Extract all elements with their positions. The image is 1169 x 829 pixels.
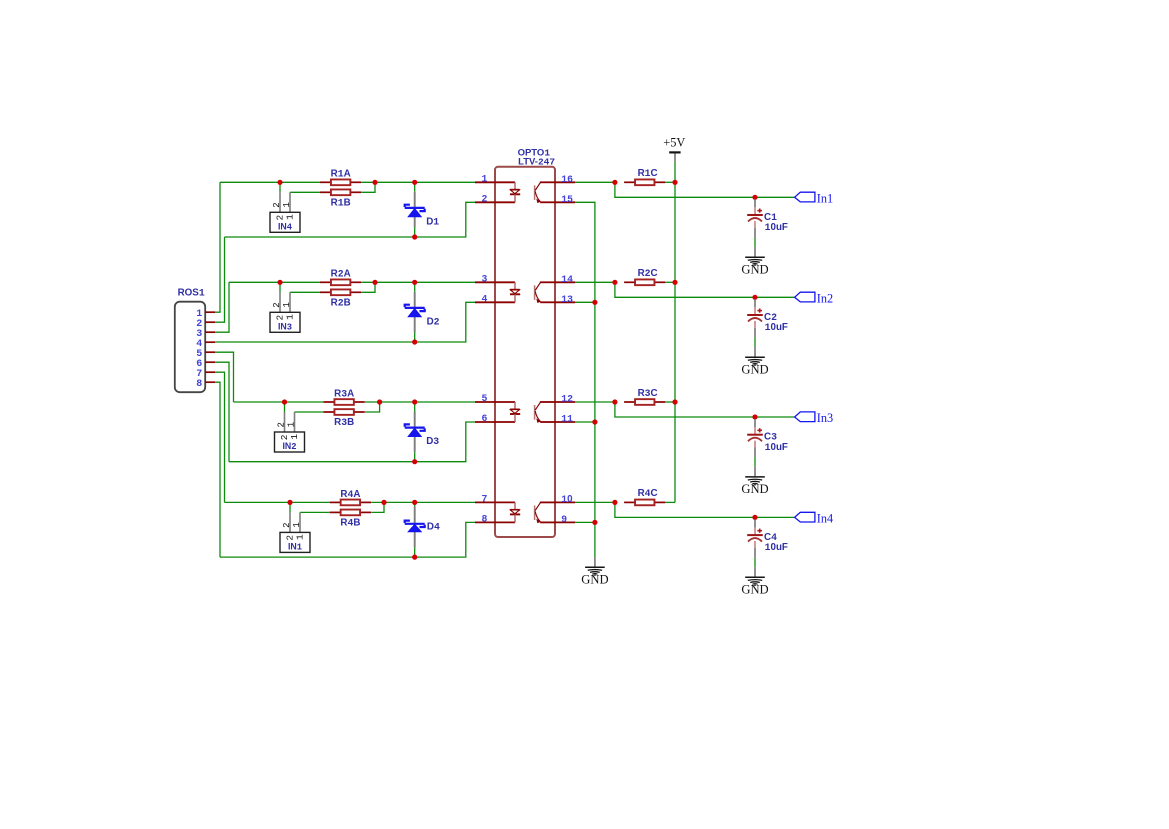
junction R2C left xyxy=(612,280,617,285)
transistor (photo) ch4 xyxy=(535,502,556,523)
label R2C xyxy=(638,268,658,279)
junction ch4 bottom at diode xyxy=(412,555,417,560)
junction In4 at cap C4 xyxy=(752,515,757,520)
pin 1 OPTO1 (anode ch1) xyxy=(475,173,515,184)
junction ch1 bottom at diode xyxy=(412,234,417,239)
junction ch2 top at IN pin2 xyxy=(277,280,282,285)
resistor R1A xyxy=(320,179,361,185)
label D3 xyxy=(426,436,439,447)
resistor R4A xyxy=(330,500,371,506)
junction ch2 top at diode xyxy=(412,280,417,285)
svg-text:1: 1 xyxy=(284,214,295,220)
ground GND (C4) xyxy=(741,567,768,596)
ground GND (C2) xyxy=(741,347,768,376)
svg-text:9: 9 xyxy=(561,514,567,525)
svg-text:16: 16 xyxy=(561,174,573,185)
opto LED ch2 xyxy=(510,282,520,302)
resistor R3B xyxy=(324,409,365,415)
junction In2 at cap C2 xyxy=(752,295,757,300)
svg-text:10uF: 10uF xyxy=(765,442,788,453)
wire output net In3 xyxy=(615,402,795,417)
resistor R4B xyxy=(330,510,371,516)
label R2B xyxy=(331,298,351,309)
wire R3B left to IN2 pin1 xyxy=(295,411,324,413)
connector ROS1 pin 4 xyxy=(196,339,215,350)
resistor R3C xyxy=(624,399,665,405)
capacitor C3 xyxy=(747,419,763,457)
wire pin 9 to emitter rail xyxy=(575,521,595,523)
resistor R1B xyxy=(320,189,361,195)
wire ROS1 pin3 to net ch2 anode xyxy=(215,282,229,332)
label R4A xyxy=(340,489,360,500)
wire ROS1 pin8 to net ch4 cathode xyxy=(215,382,220,557)
svg-text:IN4: IN4 xyxy=(278,222,293,233)
pin 15 OPTO1 (emitter ch1) xyxy=(555,194,575,205)
pin 16 OPTO1 (collector ch1) xyxy=(555,174,575,185)
junction ch4 top at diode xyxy=(412,500,417,505)
wire R3C to +5V rail xyxy=(666,401,675,403)
svg-text:+5V: +5V xyxy=(663,135,685,149)
wire ch2 anode net (top) xyxy=(229,281,475,283)
svg-text:1: 1 xyxy=(282,202,292,207)
connector ROS1 xyxy=(175,287,205,392)
wire output net In2 xyxy=(615,282,795,297)
svg-text:R2B: R2B xyxy=(331,298,351,309)
label R3B xyxy=(334,417,354,428)
resistor R2B xyxy=(320,289,361,295)
svg-text:R4B: R4B xyxy=(340,518,360,529)
svg-text:ROS1: ROS1 xyxy=(178,287,205,298)
junction ch3 top at IN pin2 xyxy=(282,399,287,404)
svg-text:1: 1 xyxy=(289,434,300,440)
pin 9 OPTO1 (emitter ch4) xyxy=(555,514,575,525)
svg-text:2: 2 xyxy=(272,302,282,307)
svg-text:R3C: R3C xyxy=(638,388,658,399)
wire output net In1 xyxy=(615,182,795,197)
svg-text:12: 12 xyxy=(561,394,573,405)
junction ch1 top at diode xyxy=(412,180,417,185)
svg-text:R1B: R1B xyxy=(331,198,351,209)
label R1A xyxy=(331,169,351,180)
resistor R2A xyxy=(320,279,361,285)
capacitor C2 xyxy=(747,299,763,337)
wire R4B right jog xyxy=(371,502,384,512)
resistor R4C xyxy=(624,500,665,506)
svg-text:1: 1 xyxy=(282,302,292,307)
optocoupler OPTO1 body xyxy=(495,167,555,537)
junction ch3 top at jog xyxy=(377,399,382,404)
power +5V xyxy=(663,135,685,162)
svg-text:15: 15 xyxy=(561,194,573,205)
svg-text:IN2: IN2 xyxy=(282,441,296,452)
label C2 xyxy=(764,312,777,323)
wire R4C to +5V rail end xyxy=(666,501,675,503)
svg-text:R3B: R3B xyxy=(334,417,354,428)
node In4 (net flag) xyxy=(795,512,834,526)
wire ch1 cathode net (bottom) xyxy=(225,202,476,237)
wire emitter rail (pins 15/13/11/9 to GND) xyxy=(575,202,595,557)
wire pin 11 to emitter rail xyxy=(575,421,595,423)
value C4 10uF xyxy=(765,542,788,553)
svg-text:GND: GND xyxy=(741,363,768,377)
capacitor C1 xyxy=(747,199,763,237)
wire R2B left to IN3 pin1 xyxy=(290,291,320,293)
wire R1C to +5V rail xyxy=(666,181,675,183)
svg-text:2: 2 xyxy=(482,193,488,204)
connector ROS1 pin 2 xyxy=(196,319,215,330)
wire ROS1 pin6 to net ch3 cathode xyxy=(215,362,229,462)
label C1 xyxy=(764,212,777,223)
label C3 xyxy=(764,432,777,443)
connector IN4 xyxy=(270,192,300,232)
wire R2C to +5V rail xyxy=(666,281,675,283)
wire C3 to ground xyxy=(754,457,756,467)
label R4B xyxy=(340,518,360,529)
svg-text:LTV-247: LTV-247 xyxy=(518,157,555,168)
node In2 (net flag) xyxy=(795,292,834,306)
svg-text:8: 8 xyxy=(482,513,488,524)
svg-text:1: 1 xyxy=(284,314,295,320)
label D4 xyxy=(427,522,440,533)
pin 6 OPTO1 (cathode ch3) xyxy=(475,413,515,424)
opto LED ch4 xyxy=(510,502,520,522)
connector ROS1 pin 7 xyxy=(196,369,215,380)
connector ROS1 pin 5 xyxy=(196,349,215,360)
value C3 10uF xyxy=(765,442,788,453)
junction ch1 top at jog xyxy=(372,180,377,185)
svg-text:R4A: R4A xyxy=(340,489,360,500)
wire R3B right jog xyxy=(365,402,380,412)
svg-text:7: 7 xyxy=(482,493,488,504)
junction ch4 top at jog xyxy=(381,500,386,505)
junction emitter rail ch2 xyxy=(592,300,597,305)
svg-text:GND: GND xyxy=(581,573,608,587)
svg-text:11: 11 xyxy=(561,414,573,425)
svg-text:D4: D4 xyxy=(427,522,440,533)
wire R1B right jog xyxy=(362,182,376,192)
label OPTO1 xyxy=(518,147,551,158)
junction emitter rail ch4 xyxy=(592,520,597,525)
junction +5V rail ch1 xyxy=(672,180,677,185)
label R2A xyxy=(331,269,351,280)
svg-text:5: 5 xyxy=(482,393,488,404)
wire pin 13 to emitter rail xyxy=(575,301,595,303)
value C2 10uF xyxy=(765,322,788,333)
wire pin 14 to R2C xyxy=(575,281,615,283)
junction In1 at cap C1 xyxy=(752,195,757,200)
svg-text:R3A: R3A xyxy=(334,388,354,399)
junction R1C left xyxy=(612,180,617,185)
junction R4C left xyxy=(612,500,617,505)
wire ch2 cathode net (bottom) xyxy=(215,302,475,342)
pin 7 OPTO1 (anode ch4) xyxy=(475,493,515,504)
connector IN3 xyxy=(270,292,300,332)
label R1B xyxy=(331,198,351,209)
connector IN1 xyxy=(280,512,310,552)
junction ch2 top at jog xyxy=(372,280,377,285)
svg-text:2: 2 xyxy=(272,202,282,207)
wire pin 16 to R1C xyxy=(575,181,615,183)
pin 12 OPTO1 (collector ch3) xyxy=(555,394,575,405)
svg-text:R1A: R1A xyxy=(331,169,351,180)
pin 11 OPTO1 (emitter ch3) xyxy=(555,414,575,425)
opto LED ch3 xyxy=(510,402,520,422)
label D1 xyxy=(426,217,439,228)
connector ROS1 pin 1 xyxy=(196,309,215,320)
svg-text:D2: D2 xyxy=(427,317,440,328)
svg-text:R2C: R2C xyxy=(638,268,658,279)
wire +5V rail xyxy=(674,162,676,503)
svg-text:GND: GND xyxy=(741,583,768,597)
label C4 xyxy=(764,532,777,543)
svg-text:In2: In2 xyxy=(817,292,833,306)
svg-text:D1: D1 xyxy=(426,217,439,228)
svg-text:14: 14 xyxy=(561,274,573,285)
wire ch1 anode net (top) xyxy=(220,181,475,183)
svg-text:10uF: 10uF xyxy=(765,542,788,553)
wire R1B left to IN4 pin1 xyxy=(290,191,320,193)
svg-text:R4C: R4C xyxy=(638,488,658,499)
wire ch3 cathode net (bottom) xyxy=(229,422,475,462)
label R1C xyxy=(638,168,658,179)
wire ROS1 pin5 to net ch3 anode xyxy=(215,352,233,402)
label D2 xyxy=(427,317,440,328)
svg-text:In1: In1 xyxy=(817,192,833,206)
node In1 (net flag) xyxy=(795,192,834,206)
resistor R2C xyxy=(624,279,665,285)
connector ROS1 pin 3 xyxy=(196,329,215,340)
opto LED ch1 xyxy=(510,182,520,202)
pin 14 OPTO1 (collector ch2) xyxy=(555,274,575,285)
svg-text:1: 1 xyxy=(482,173,488,184)
pin 10 OPTO1 (collector ch4) xyxy=(555,494,575,505)
junction +5V rail ch2 xyxy=(672,280,677,285)
connector ROS1 pin 6 xyxy=(196,359,215,370)
zener diode D2 xyxy=(405,282,425,342)
svg-text:IN1: IN1 xyxy=(288,542,302,553)
junction +5V rail ch3 xyxy=(672,399,677,404)
svg-text:IN3: IN3 xyxy=(278,322,292,333)
svg-text:10: 10 xyxy=(561,494,573,505)
resistor R1C xyxy=(624,179,665,185)
junction ch3 bottom at diode xyxy=(412,459,417,464)
value C1 10uF xyxy=(765,222,788,233)
capacitor C4 xyxy=(747,519,763,557)
svg-text:GND: GND xyxy=(741,482,768,496)
svg-text:13: 13 xyxy=(561,294,573,305)
wire output net In4 xyxy=(615,502,795,517)
junction ch1 top at IN pin2 xyxy=(277,180,282,185)
label R3C xyxy=(638,388,658,399)
node In3 (net flag) xyxy=(795,411,834,425)
wire ch3 anode net (top) xyxy=(234,401,476,403)
pin 2 OPTO1 (cathode ch1) xyxy=(475,193,515,204)
transistor (photo) ch1 xyxy=(535,182,556,203)
svg-text:1: 1 xyxy=(292,522,302,527)
label R4C xyxy=(638,488,658,499)
svg-text:2: 2 xyxy=(282,522,292,527)
transistor (photo) ch2 xyxy=(535,282,556,303)
wire IN3 pin2 up xyxy=(279,282,281,292)
wire ROS1 pin7 to net ch4 anode xyxy=(215,372,224,502)
zener diode D1 xyxy=(405,182,425,237)
connector ROS1 pin 8 xyxy=(196,379,215,390)
connector IN2 xyxy=(275,412,305,452)
junction emitter rail ch3 xyxy=(592,419,597,424)
wire IN2 pin2 up xyxy=(284,402,286,412)
svg-text:In3: In3 xyxy=(817,411,833,425)
junction R3C left xyxy=(612,399,617,404)
svg-text:3: 3 xyxy=(482,273,488,284)
svg-text:R1C: R1C xyxy=(638,168,658,179)
svg-text:1: 1 xyxy=(294,534,305,540)
svg-text:4: 4 xyxy=(482,293,488,304)
zener diode D3 xyxy=(405,402,425,462)
wire IN4 pin2 up xyxy=(279,182,281,192)
wire pin 12 to R3C xyxy=(575,401,615,403)
wire IN1 pin2 up xyxy=(289,502,291,512)
svg-text:1: 1 xyxy=(286,422,296,427)
pin 3 OPTO1 (anode ch2) xyxy=(475,273,515,284)
wire C1 to ground xyxy=(754,238,756,248)
wire C4 to ground xyxy=(754,558,756,568)
wire ch4 anode net (top) xyxy=(225,501,476,503)
pin 13 OPTO1 (emitter ch2) xyxy=(555,294,575,305)
wire C2 to ground xyxy=(754,338,756,348)
svg-text:In4: In4 xyxy=(817,512,833,526)
junction In3 at cap C3 xyxy=(752,414,757,419)
wire R4B left to IN1 pin1 xyxy=(300,511,330,513)
zener diode D4 xyxy=(405,502,425,557)
junction ch2 bottom at diode xyxy=(412,339,417,344)
ground GND (C3) xyxy=(741,467,768,496)
transistor (photo) ch3 xyxy=(535,402,556,423)
ground GND (C1) xyxy=(741,247,768,276)
svg-text:8: 8 xyxy=(196,379,202,390)
svg-text:10uF: 10uF xyxy=(765,222,788,233)
label R3A xyxy=(334,388,354,399)
wire ROS1 pin2 to net ch1 cathode xyxy=(215,237,224,322)
svg-text:2: 2 xyxy=(276,422,286,427)
wire ch4 cathode net (bottom) xyxy=(220,522,475,557)
svg-text:6: 6 xyxy=(482,413,488,424)
wire R2B right jog xyxy=(362,282,376,292)
wire pin 10 to R4C xyxy=(575,501,615,503)
pin 5 OPTO1 (anode ch3) xyxy=(475,393,515,404)
junction ch4 top at IN pin2 xyxy=(287,500,292,505)
svg-text:D3: D3 xyxy=(426,436,439,447)
junction ch3 top at diode xyxy=(412,399,417,404)
pin 4 OPTO1 (cathode ch2) xyxy=(475,293,515,304)
svg-text:R2A: R2A xyxy=(331,269,351,280)
wire ROS1 pin1 to net ch1 anode xyxy=(215,182,220,312)
label LTV-247 xyxy=(518,157,555,168)
ground GND (opto emitters) xyxy=(581,557,608,586)
svg-text:10uF: 10uF xyxy=(765,322,788,333)
pin 8 OPTO1 (cathode ch4) xyxy=(475,513,515,524)
resistor R3A xyxy=(324,399,365,405)
svg-text:GND: GND xyxy=(741,263,768,277)
